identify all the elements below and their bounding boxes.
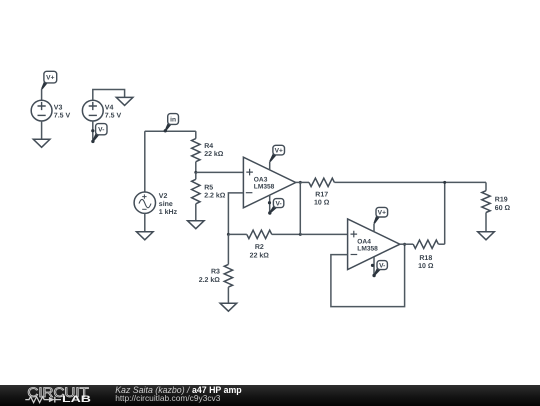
- node: [299, 233, 302, 236]
- svg-text:R19: R19: [495, 197, 508, 204]
- wire: [331, 244, 405, 306]
- wire: [144, 213, 146, 231]
- op-amp U1 OA3: [243, 157, 295, 208]
- wire: [373, 224, 375, 232]
- node: [403, 243, 406, 246]
- wire: [299, 182, 301, 234]
- wire: [300, 233, 347, 235]
- wire: [92, 121, 94, 142]
- resistor R19: [482, 182, 511, 231]
- svg-text:22 kΩ: 22 kΩ: [204, 150, 224, 158]
- net flag V- (OA4): [372, 261, 387, 278]
- svg-text:2.2 kΩ: 2.2 kΩ: [199, 276, 221, 284]
- ground: [33, 139, 50, 147]
- ground: [137, 232, 154, 240]
- net flag V- (V4): [91, 124, 107, 143]
- net flag V+ (OA4): [374, 207, 388, 223]
- svg-text:7.5 V: 7.5 V: [105, 113, 122, 120]
- svg-text:R18: R18: [419, 255, 432, 262]
- svg-text:2.2 kΩ: 2.2 kΩ: [204, 191, 226, 199]
- svg-text:R17: R17: [315, 192, 328, 199]
- node: [443, 181, 446, 184]
- junction: [91, 129, 94, 132]
- wire: [269, 162, 271, 170]
- resistor R17: [296, 178, 335, 206]
- svg-text:LAB: LAB: [62, 394, 91, 405]
- ground: [116, 97, 133, 105]
- wire: [373, 257, 375, 276]
- wire: [41, 89, 43, 100]
- svg-text:R4: R4: [204, 143, 213, 150]
- svg-text:10 Ω: 10 Ω: [418, 263, 434, 270]
- svg-text:OA4: OA4: [357, 238, 371, 245]
- svg-text:1 kHz: 1 kHz: [159, 208, 178, 216]
- voltage source V4: [82, 100, 121, 121]
- svg-text:OA3: OA3: [254, 176, 268, 183]
- wire: [228, 193, 243, 235]
- svg-text:in: in: [170, 116, 176, 123]
- svg-text:V3: V3: [54, 105, 63, 112]
- wire: [93, 90, 125, 101]
- junction: [268, 201, 271, 204]
- svg-text:V2: V2: [159, 193, 168, 200]
- net flag V+ (OA3): [269, 145, 284, 162]
- svg-text:V4: V4: [105, 105, 114, 112]
- svg-text:LM358: LM358: [254, 184, 275, 191]
- wire: [196, 171, 244, 173]
- svg-text:22 kΩ: 22 kΩ: [250, 251, 270, 259]
- net flag V- (OA3): [268, 199, 284, 215]
- resistor R2: [228, 230, 300, 259]
- svg-text:LM358: LM358: [357, 246, 378, 253]
- ground: [478, 232, 495, 240]
- net flag V+ (V3): [41, 71, 57, 89]
- svg-text:60 Ω: 60 Ω: [495, 205, 511, 212]
- wire: [334, 181, 486, 183]
- ground: [188, 221, 205, 229]
- svg-text:V+: V+: [275, 148, 283, 155]
- svg-text:V+: V+: [378, 210, 386, 217]
- svg-text:http://circuitlab.com/c9y3cv3: http://circuitlab.com/c9y3cv3: [115, 393, 221, 403]
- wire: [269, 195, 271, 213]
- svg-text:7.5 V: 7.5 V: [54, 113, 71, 120]
- svg-text:R5: R5: [204, 184, 213, 191]
- ground: [220, 303, 237, 311]
- node: [194, 171, 197, 174]
- junction: [371, 264, 374, 267]
- wire: [444, 182, 446, 244]
- svg-text:sine: sine: [159, 200, 173, 208]
- voltage source V2: [134, 192, 177, 216]
- op-amp U2 OA4: [348, 219, 400, 270]
- wire: [145, 130, 196, 132]
- resistor R5: [192, 172, 226, 220]
- svg-text:V-: V-: [379, 263, 385, 270]
- resistor R4: [192, 131, 224, 172]
- CircuitLab logo: resistor-diode glyph: [25, 396, 61, 402]
- svg-text:V+: V+: [46, 75, 54, 82]
- resistor R3: [199, 234, 233, 303]
- svg-text:10 Ω: 10 Ω: [314, 200, 330, 207]
- svg-text:R3: R3: [211, 269, 220, 276]
- wire: [144, 131, 146, 192]
- svg-text:R2: R2: [255, 244, 264, 251]
- resistor R18: [400, 240, 445, 270]
- footer bar: [0, 385, 540, 406]
- wire: [41, 121, 43, 139]
- voltage source V3: [31, 100, 70, 121]
- svg-text:V-: V-: [98, 127, 104, 134]
- node: [227, 233, 230, 236]
- node: [299, 181, 302, 184]
- net flag in: [164, 114, 179, 133]
- svg-text:V-: V-: [275, 201, 281, 208]
